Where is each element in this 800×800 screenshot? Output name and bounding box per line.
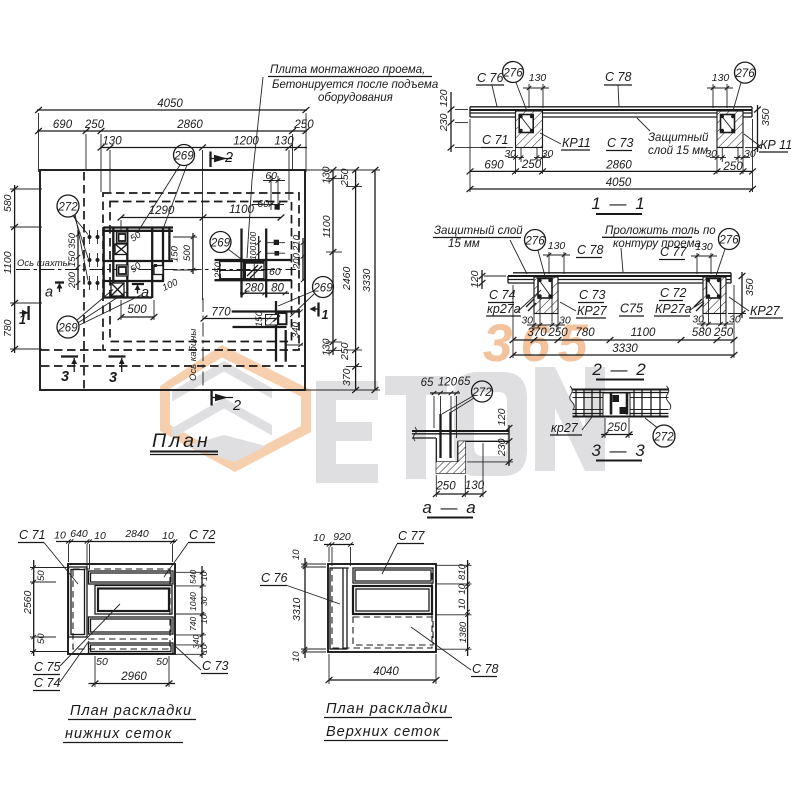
svg-text:210: 210 [292, 234, 303, 252]
extension lines top [38, 113, 40, 172]
svg-text:770: 770 [211, 307, 231, 319]
right dims [508, 425, 510, 466]
svg-text:кр27а: кр27а [487, 302, 521, 316]
svg-text:Проложить толь по: Проложить толь по [605, 225, 716, 237]
svg-text:1380: 1380 [458, 621, 469, 643]
svg-text:230: 230 [438, 113, 450, 132]
svg-text:250: 250 [713, 327, 734, 339]
svg-text:250: 250 [547, 327, 568, 339]
slab lines [470, 109, 752, 111]
svg-text:350: 350 [67, 232, 78, 249]
section mark 1 right [311, 308, 319, 310]
svg-text:10: 10 [199, 571, 209, 581]
svg-text:План раскладки: План раскладки [326, 701, 448, 717]
svg-text:130: 130 [321, 166, 333, 184]
svg-text:250: 250 [339, 168, 351, 187]
svg-text:120: 120 [469, 270, 481, 288]
svg-text:10: 10 [54, 530, 66, 542]
svg-text:200: 200 [292, 252, 303, 270]
svg-text:Бетонируется после подъема: Бетонируется после подъема [272, 79, 438, 91]
svg-text:130: 130 [712, 72, 730, 84]
svg-text:690: 690 [484, 160, 504, 172]
watermark chevron 1 [172, 361, 272, 402]
svg-text:КР27: КР27 [577, 304, 608, 318]
watermark letter N [535, 367, 605, 471]
svg-text:10: 10 [457, 598, 468, 609]
svg-text:1100: 1100 [2, 251, 14, 274]
watermark letter T [385, 376, 447, 479]
svg-text:920: 920 [333, 531, 351, 543]
svg-text:500: 500 [127, 304, 147, 316]
svg-text:С 73: С 73 [579, 288, 605, 302]
right dim column [467, 560, 469, 656]
right dim column [201, 566, 203, 658]
svg-text:2960: 2960 [120, 671, 147, 683]
svg-text:365: 365 [483, 314, 595, 373]
svg-text:540: 540 [188, 570, 198, 584]
svg-text:1290: 1290 [149, 205, 175, 217]
dashed rect outer [103, 193, 299, 350]
svg-text:План раскладки: План раскладки [70, 703, 192, 719]
section mark 2 top [209, 152, 211, 168]
svg-text:1100: 1100 [321, 215, 333, 238]
svg-text:План: План [152, 430, 211, 452]
dashed rect inner [110, 202, 292, 342]
right vertical dim 350 [757, 105, 759, 152]
svg-text:50: 50 [36, 570, 47, 581]
svg-text:С 75: С 75 [34, 660, 60, 674]
svg-text:10: 10 [199, 644, 209, 654]
svg-text:1200: 1200 [233, 136, 259, 148]
svg-text:1100: 1100 [631, 327, 656, 339]
svg-text:130: 130 [548, 240, 566, 252]
left 120 dim [481, 270, 483, 289]
left mesh grid [104, 227, 174, 298]
right 350 dim [741, 272, 743, 318]
rebar end dots [88, 235, 100, 285]
svg-text:С 78: С 78 [472, 662, 498, 676]
band 2 [89, 617, 174, 634]
svg-text:С 71: С 71 [19, 528, 45, 542]
svg-text:100: 100 [248, 232, 258, 246]
svg-text:а: а [45, 285, 53, 301]
svg-text:1 — 1: 1 — 1 [591, 194, 646, 213]
section marks 3 bottom [61, 355, 78, 357]
svg-text:10: 10 [199, 614, 209, 624]
svg-text:50: 50 [36, 633, 47, 644]
svg-text:2860: 2860 [176, 119, 203, 131]
svg-text:120: 120 [438, 89, 450, 107]
svg-text:200: 200 [67, 271, 78, 289]
svg-text:Ось шахты: Ось шахты [17, 258, 70, 269]
svg-text:250: 250 [606, 422, 627, 434]
svg-text:810: 810 [457, 563, 468, 580]
svg-text:150: 150 [67, 250, 78, 267]
middle block [603, 393, 630, 416]
right dim chains [305, 169, 380, 171]
svg-text:2: 2 [232, 398, 241, 414]
svg-text:10: 10 [291, 651, 302, 662]
dim 350/150/200 column [77, 230, 79, 290]
watermark chevron 2 [172, 398, 272, 439]
svg-text:272: 272 [57, 202, 78, 214]
svg-text:370: 370 [341, 368, 353, 386]
svg-text:2460: 2460 [341, 266, 353, 291]
circle 269 mid [210, 232, 231, 253]
svg-text:4050: 4050 [606, 177, 632, 189]
svg-text:4050: 4050 [157, 98, 183, 110]
svg-text:30: 30 [542, 148, 554, 160]
middle window [353, 586, 432, 614]
svg-text:130: 130 [529, 72, 547, 84]
slab lines [508, 275, 731, 277]
svg-text:С 77: С 77 [398, 529, 425, 543]
svg-text:640: 640 [70, 528, 88, 540]
bottom band [88, 638, 173, 640]
svg-text:1100: 1100 [229, 204, 254, 216]
rebar verticals [439, 414, 441, 458]
svg-text:КР11: КР11 [562, 136, 591, 150]
svg-text:250: 250 [521, 159, 542, 171]
end breaks [570, 386, 575, 410]
svg-text:С 76: С 76 [261, 571, 287, 585]
ladder chords [573, 389, 669, 391]
svg-text:269: 269 [210, 238, 231, 250]
svg-text:2840: 2840 [124, 528, 149, 540]
svg-text:10: 10 [162, 530, 174, 542]
circle 272 [57, 195, 79, 217]
svg-text:2: 2 [224, 150, 233, 166]
svg-text:120: 120 [438, 377, 458, 389]
svg-text:269: 269 [312, 283, 333, 295]
anchor plate squares [111, 232, 163, 296]
svg-text:контуру проема: контуру проема [613, 238, 701, 250]
middle window [95, 586, 172, 615]
plan outline [40, 170, 305, 390]
svg-text:350: 350 [744, 278, 756, 296]
svg-text:С 74: С 74 [34, 676, 60, 690]
svg-text:Защитный слой: Защитный слой [434, 225, 523, 237]
circle 269 right [313, 277, 334, 298]
watermark logo hexagon ring [160, 314, 605, 483]
svg-text:С 76: С 76 [477, 71, 503, 85]
hatch marks kr27a [526, 299, 534, 307]
svg-text:580: 580 [692, 327, 712, 339]
svg-text:60: 60 [269, 266, 281, 278]
left vertical dims [450, 92, 452, 152]
outer rect [68, 564, 175, 654]
svg-text:3 — 3: 3 — 3 [591, 441, 646, 460]
svg-text:а: а [141, 285, 149, 301]
svg-text:65: 65 [421, 377, 434, 389]
svg-text:С75: С75 [620, 302, 643, 316]
left dim column [33, 560, 35, 656]
svg-text:Ось кабины: Ось кабины [188, 329, 199, 381]
svg-text:С 78: С 78 [577, 243, 603, 257]
svg-text:КР 11: КР 11 [760, 138, 792, 152]
svg-text:690: 690 [53, 119, 73, 131]
svg-text:15 мм: 15 мм [448, 238, 480, 250]
svg-text:нижних сеток: нижних сеток [65, 726, 172, 742]
slab [412, 430, 509, 432]
beam right (hatched) [717, 111, 743, 148]
svg-text:10: 10 [291, 549, 302, 560]
lower right rebar assembly [232, 310, 299, 312]
svg-text:Плита монтажного проема,: Плита монтажного проема, [270, 64, 425, 76]
break marks [414, 427, 417, 441]
svg-text:500: 500 [182, 244, 193, 261]
bottom dashed band line [41, 365, 304, 367]
svg-text:350: 350 [760, 108, 772, 126]
svg-text:276: 276 [524, 236, 545, 248]
svg-text:1: 1 [322, 308, 329, 322]
beam left (hatched) [516, 111, 543, 148]
left dim column [304, 558, 306, 658]
svg-text:276: 276 [734, 68, 755, 80]
svg-text:2860: 2860 [605, 160, 632, 172]
svg-text:С 72: С 72 [189, 528, 215, 542]
svg-text:276: 276 [718, 235, 739, 247]
svg-text:230: 230 [496, 438, 508, 457]
svg-text:С 73: С 73 [607, 136, 633, 150]
svg-text:30: 30 [705, 148, 717, 160]
dashed inner [332, 568, 432, 648]
svg-text:10: 10 [94, 530, 106, 542]
left tall mesh C71 [69, 567, 88, 637]
small black squares right mesh [274, 240, 279, 245]
svg-text:3: 3 [61, 369, 69, 385]
svg-text:120: 120 [496, 408, 508, 426]
section mark 1 left [20, 312, 29, 314]
svg-text:слой 15 мм: слой 15 мм [648, 145, 708, 157]
svg-text:С 72: С 72 [660, 286, 686, 300]
svg-text:250: 250 [435, 481, 456, 493]
svg-text:100: 100 [248, 246, 258, 260]
svg-text:С 77: С 77 [660, 245, 687, 259]
svg-text:кр27: кр27 [551, 421, 579, 435]
lower band dashed [353, 617, 433, 645]
svg-text:30: 30 [199, 596, 209, 606]
leader from note to plan [247, 77, 263, 258]
svg-text:272: 272 [653, 432, 674, 444]
svg-text:3: 3 [109, 370, 117, 386]
svg-text:2560: 2560 [22, 590, 34, 615]
svg-text:250: 250 [84, 119, 105, 131]
svg-text:4040: 4040 [373, 666, 399, 678]
dashed column line [83, 172, 85, 389]
svg-text:150: 150 [170, 245, 181, 262]
svg-text:580: 580 [2, 194, 14, 212]
svg-text:340: 340 [291, 321, 302, 338]
left dim chain [10, 188, 42, 190]
left vertical band [330, 568, 347, 649]
svg-text:250: 250 [339, 342, 351, 361]
circle 269 left-bottom [57, 316, 79, 338]
svg-text:272: 272 [471, 387, 492, 399]
circle 269 top [174, 145, 195, 166]
svg-text:50: 50 [96, 656, 108, 668]
watermark letter O [454, 372, 527, 476]
svg-text:250: 250 [213, 261, 224, 279]
svg-text:250: 250 [293, 119, 314, 131]
svg-text:С 78: С 78 [605, 70, 631, 84]
svg-text:С 71: С 71 [482, 133, 508, 147]
svg-text:КР27: КР27 [750, 304, 781, 318]
beam left [534, 277, 558, 314]
svg-text:269: 269 [57, 323, 78, 335]
svg-text:10: 10 [457, 583, 468, 594]
svg-text:1: 1 [19, 313, 26, 327]
svg-text:2 — 2: 2 — 2 [591, 360, 647, 379]
svg-text:60: 60 [257, 198, 269, 210]
dashed inner [73, 569, 170, 649]
outer rect [328, 564, 436, 652]
svg-text:оборудования: оборудования [318, 92, 393, 104]
svg-text:269: 269 [173, 151, 194, 163]
svg-text:50: 50 [156, 656, 168, 668]
svg-text:3330: 3330 [612, 343, 638, 355]
svg-text:130: 130 [465, 480, 485, 492]
svg-text:а — а: а — а [422, 498, 477, 517]
svg-text:Защитный: Защитный [648, 132, 709, 144]
svg-text:130: 130 [321, 338, 333, 356]
top band C72 [89, 571, 174, 584]
beam right [703, 277, 726, 314]
svg-text:780: 780 [2, 319, 14, 337]
svg-text:1040: 1040 [188, 592, 198, 611]
watermark letter E [316, 381, 378, 483]
svg-text:С 74: С 74 [489, 288, 515, 302]
svg-text:3330: 3330 [361, 268, 373, 292]
verticals [576, 390, 660, 417]
svg-text:Верхних сеток: Верхних сеток [326, 724, 441, 740]
svg-text:65: 65 [458, 376, 471, 388]
section mark 2 bottom [210, 391, 212, 406]
svg-text:276: 276 [502, 68, 523, 80]
svg-text:780: 780 [575, 327, 595, 339]
svg-text:С 73: С 73 [202, 659, 228, 673]
right mesh grid [215, 229, 292, 298]
svg-text:30: 30 [744, 148, 756, 160]
svg-text:150: 150 [254, 310, 265, 327]
svg-text:10: 10 [313, 532, 325, 544]
svg-text:130: 130 [695, 241, 713, 253]
svg-text:740: 740 [188, 617, 198, 631]
top band C77 [353, 568, 433, 583]
svg-text:3310: 3310 [291, 597, 303, 621]
watermark chevron 3 [186, 435, 266, 462]
svg-text:КР27а: КР27а [655, 302, 692, 316]
